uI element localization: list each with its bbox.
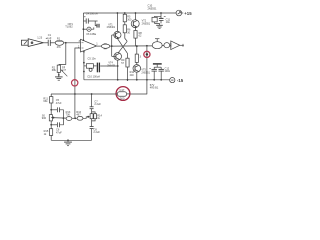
svg-text:C5 10n: C5 10n (88, 57, 97, 61)
red marker circle (left, on feedback wire) (72, 80, 78, 86)
node on rail x124.5 (124, 12, 126, 14)
wire row C (51, 124, 57, 126)
transistor VT5 (133, 65, 141, 73)
svg-text:63k: 63k (43, 99, 48, 103)
resistor R9 (126, 58, 129, 67)
svg-text:TL062: TL062 (65, 25, 73, 29)
node circle small (87, 27, 91, 31)
svg-text:+15: +15 (184, 11, 192, 16)
wire +15 rail (83, 12, 176, 14)
capacitor C8 (90, 127, 94, 141)
resistor R12 (top of left column) (50, 97, 53, 103)
wire output node to R7 (136, 46, 138, 54)
svg-text:47uF: 47uF (56, 101, 62, 105)
wire R7 to VT5 (136, 62, 138, 64)
capacitor C10 (box) (152, 16, 161, 23)
wire row C to drop (60, 118, 64, 125)
output connector XS2 (170, 41, 184, 50)
wire to polarity circle (83, 28, 86, 30)
red marker big circle (component in mid wire) (116, 87, 130, 101)
svg-text:R1: R1 (57, 37, 61, 41)
resistor R12 (oval) (164, 43, 170, 48)
wire VT1 base (112, 34, 116, 36)
wire row A (51, 109, 57, 111)
svg-text:2N5551: 2N5551 (142, 22, 151, 25)
power terminal +15 (176, 10, 183, 16)
ground (above -15 caps) (153, 64, 162, 67)
capacitor C1 (46, 39, 51, 46)
svg-text:68k: 68k (52, 68, 57, 72)
wire VT2 to R8 (135, 28, 137, 31)
wire x74.9 down to bias chain (74, 94, 76, 118)
op-amp U1 OP1 (81, 39, 97, 52)
svg-text:2N5551: 2N5551 (148, 6, 158, 10)
node A (input bias node) (65, 42, 67, 44)
resistor R16 (bottom of left column) (49, 129, 52, 136)
resistor R14 (oval, bias chain) (66, 117, 72, 121)
component inside red circle (fuse) (115, 88, 130, 101)
wire base row (51, 117, 66, 120)
resistor R15 (oval, bias chain) (77, 116, 83, 120)
wire R4 to node B (110, 45, 112, 47)
red marker ring (output junction) (144, 51, 150, 57)
resistor R3 (feedback box) (83, 51, 97, 80)
svg-text:57: 57 (121, 62, 124, 65)
svg-text:240: 240 (130, 74, 135, 77)
wire R15 to VT7 (83, 117, 90, 119)
resistor R6 (123, 25, 126, 33)
transistor VT7 (87, 114, 93, 119)
node on rail x113 (117, 12, 119, 14)
node on rail for C10/C11 (160, 12, 162, 14)
node C (output junction) (146, 45, 148, 47)
svg-text:C4 206 uA: C4 206 uA (86, 13, 98, 16)
input connector XS1 (21, 39, 43, 47)
wire down from rail to decoupling caps (160, 13, 162, 16)
wire node vertical (111, 35, 113, 56)
svg-text:500: 500 (120, 97, 125, 101)
capacitor C6 (57, 122, 59, 127)
wire VT5 down to -15 rail (136, 72, 138, 80)
svg-text:2N5551: 2N5551 (141, 71, 150, 74)
wire R5 to R6 (124, 13, 126, 14)
svg-text:736: 736 (66, 113, 71, 117)
node on -15 rail (146, 79, 148, 81)
svg-text:C17: C17 (120, 88, 125, 92)
resistor R13 (on left column) (49, 115, 52, 121)
wire opamp output (97, 45, 102, 47)
node row A (50, 109, 52, 111)
wire cross diagonal B (118, 41, 127, 53)
polarized cap plates (dark) (97, 24, 99, 28)
wire feedback from pin2 (75, 48, 81, 94)
node crossing x74.9 (74, 93, 76, 95)
wire circle to bars (91, 27, 94, 29)
resistor R4 (oval on output) (101, 44, 109, 48)
node W3/right column (91, 93, 93, 95)
wire left column (50, 94, 52, 97)
svg-text:C6 10Ba: C6 10Ba (86, 32, 96, 36)
wire R1 to opamp (64, 42, 81, 44)
bottom wire (51, 139, 91, 141)
wire R16 to bottom wire (50, 135, 52, 140)
wire V- below opamp (83, 51, 85, 53)
svg-text:2N5401: 2N5401 (107, 26, 116, 29)
nodes on -15 rail (117, 79, 119, 81)
transistor VT4 (112, 53, 122, 61)
node on rail x135.5 (135, 12, 137, 14)
wire input to C1 (43, 42, 48, 44)
svg-text:3: 3 (140, 55, 142, 58)
svg-text:100n: 100n (165, 69, 171, 73)
svg-text:C10 100uA: C10 100uA (87, 75, 100, 79)
mid horizontal wire (to bottom bias network) (51, 93, 117, 95)
wire VT7 down (91, 119, 93, 127)
ground (bottom) (64, 139, 72, 145)
svg-text:2.2uF: 2.2uF (94, 102, 101, 106)
resistor R1 (oval body) (55, 40, 63, 45)
transistor VT1 (114, 31, 121, 39)
svg-text:1: 1 (96, 42, 98, 46)
wire cross diagonal A (118, 39, 128, 54)
wire V+ from rail to opamp (82, 13, 84, 41)
svg-text:300: 300 (127, 18, 132, 21)
ground (under R2) (55, 72, 63, 80)
svg-text:62: 62 (139, 35, 142, 38)
svg-text:10u: 10u (166, 20, 171, 24)
svg-text:4R5 B1: 4R5 B1 (150, 86, 159, 90)
junction dot inside red marker (146, 53, 149, 56)
svg-text:30: 30 (127, 31, 130, 34)
capacitor C7 (90, 107, 94, 114)
wire output line (112, 45, 153, 47)
svg-text:2.2uF: 2.2uF (93, 130, 100, 134)
svg-text:47uF: 47uF (56, 130, 62, 134)
resistor R17 (beside VT7) (92, 112, 97, 121)
wire rail to VT1 (116, 13, 118, 32)
wire column to row C (50, 124, 52, 126)
-15 rail (84, 79, 170, 81)
trimmer R11 (oval with arrow) (152, 39, 162, 49)
wire R8 down to output node (135, 38, 137, 46)
resistor R8 (134, 31, 137, 39)
wire node A down to R2 (59, 43, 66, 65)
node small dot (83, 28, 85, 30)
svg-text:10n: 10n (62, 69, 67, 72)
svg-text:47k: 47k (57, 45, 62, 49)
svg-text:-15: -15 (177, 78, 184, 83)
wire from mid wire down right column (91, 94, 93, 107)
svg-text:1 uF: 1 uF (46, 36, 52, 40)
capacitor C11 (electrolytic) (159, 16, 166, 23)
wire row A to drop (60, 110, 64, 118)
wire rail to VT2 (135, 13, 137, 20)
wire R6 down (125, 33, 127, 42)
wire R9 (127, 53, 129, 58)
power terminal -15 (170, 78, 175, 83)
resistor R5 (123, 14, 126, 21)
wire output node down through red marker (146, 46, 148, 95)
svg-text:900: 900 (42, 116, 47, 120)
node base row (52, 117, 54, 119)
wire C1 to R1 (50, 42, 55, 44)
node B (111, 45, 113, 47)
wire between ovals (72, 117, 76, 119)
capacitor C2 (dark plates) (97, 63, 117, 73)
capacitor C4 (supply electrolytic) (83, 17, 97, 24)
resistor R2 (trimmer box) (57, 64, 67, 76)
resistor R7 (135, 54, 138, 62)
svg-text:467: 467 (76, 113, 81, 117)
node drop/base (63, 117, 65, 119)
svg-text:1,23: 1,23 (37, 35, 43, 39)
svg-text:2N5401: 2N5401 (107, 64, 116, 67)
ground (top-right decoupling) (156, 23, 163, 28)
wire VT4 emitter down (117, 60, 119, 80)
capacitor C12 (electrolytic) (149, 67, 157, 80)
wire C4 to C6 branch (95, 21, 96, 26)
transistor VT2 (131, 20, 139, 28)
capacitor C5 (57, 107, 59, 112)
capacitor C13 (electrolytic) (159, 67, 164, 80)
